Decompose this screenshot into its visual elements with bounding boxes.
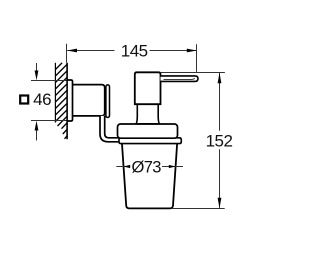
dim 46 arrow top (36, 63, 38, 72)
dim 46 arrow bottom (36, 130, 38, 141)
square symbol (20, 96, 28, 104)
svg-text:152: 152 (206, 132, 233, 151)
wall plate (67, 80, 72, 121)
wall face line (66, 63, 68, 139)
glass tumbler (122, 143, 177, 209)
dim 46 extension bottom (31, 120, 67, 122)
ring band (119, 138, 181, 144)
holder front cap (106, 85, 110, 118)
dim 152 line (219, 73, 221, 131)
svg-text:145: 145 (121, 42, 148, 61)
dim O73 line right (162, 166, 183, 168)
dim 145 line (67, 50, 114, 52)
dim 145 extension line left (66, 44, 68, 63)
svg-text:Ø73: Ø73 (132, 158, 162, 176)
wall hatching (55, 63, 67, 139)
dim 145 arrow left (67, 49, 77, 53)
pump collar (118, 124, 178, 138)
dim 46 extension top (31, 80, 67, 82)
holder body (73, 85, 105, 116)
spout inner line (164, 78, 195, 79)
dim O73 arrow left (123, 165, 130, 168)
svg-text:46: 46 (33, 90, 51, 109)
holder arm and ring band (100, 116, 121, 142)
dim O73 arrow right (169, 165, 176, 168)
dim 152 extension top (161, 72, 225, 74)
pump neck (136, 104, 160, 124)
dim 152 arrow up (218, 73, 222, 83)
pump head (135, 72, 161, 104)
wall back line (54, 63, 56, 123)
dim 152 arrow down (218, 198, 222, 208)
dim 152 extension bottom (172, 208, 225, 210)
dim 145 arrow right (187, 49, 197, 53)
dim 145 extension line right (196, 44, 198, 72)
spout (161, 76, 199, 82)
dim O73 line left (116, 166, 129, 168)
